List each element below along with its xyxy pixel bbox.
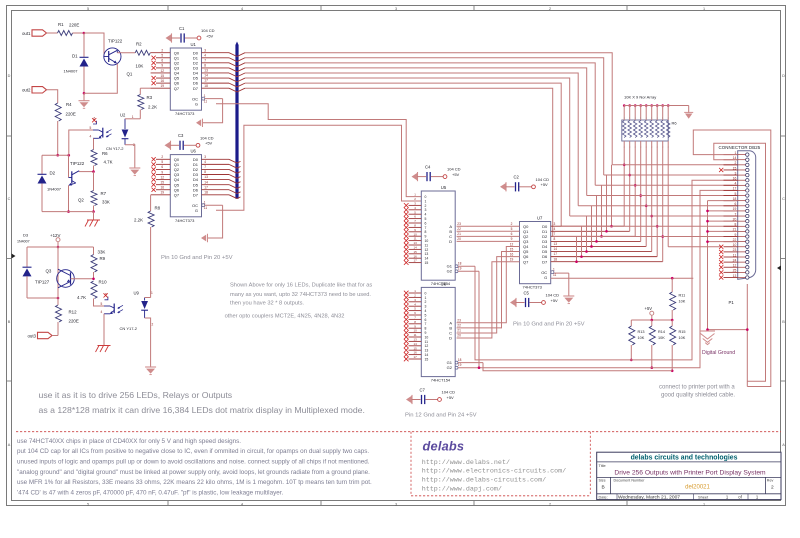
junction U8 G2 select: [478, 366, 481, 369]
svg-text:15: 15: [161, 180, 165, 184]
junction R6 R7 collector: [92, 170, 95, 173]
svg-text:5: 5: [511, 227, 513, 231]
x-marks U1 unused inputs: [152, 56, 156, 86]
svg-text:1N4007: 1N4007: [47, 187, 62, 192]
wire DB25 shell to ground: [708, 284, 749, 387]
svg-text:5: 5: [87, 502, 89, 506]
U5 output stubs: [409, 205, 422, 262]
junction opto collector rail: [68, 154, 71, 157]
capacitor C4: [412, 164, 461, 181]
svg-text:12: 12: [425, 344, 429, 348]
svg-text:Q2: Q2: [78, 198, 84, 203]
svg-text:4: 4: [425, 309, 427, 313]
wire DB25 ground bus: [706, 201, 738, 330]
resistor R7: [91, 172, 110, 212]
svg-text:10K: 10K: [679, 300, 686, 304]
svg-text:3: 3: [395, 502, 397, 506]
svg-text:+5V: +5V: [452, 172, 460, 177]
svg-text:D3: D3: [23, 232, 29, 237]
svg-text:3: 3: [425, 305, 427, 309]
svg-text:as a 128*128 matrix it can dri: as a 128*128 matrix it can drive 16,384 …: [39, 405, 365, 415]
svg-text:12: 12: [161, 69, 165, 73]
wires U7 Q0-Q3 to U5 ABCD: [457, 226, 520, 241]
svg-text:4: 4: [425, 213, 427, 217]
svg-text:10K: 10K: [136, 64, 144, 69]
wire node to Q1 collector: [84, 33, 104, 57]
U7 D riser wires: [551, 165, 663, 263]
svg-text:2: 2: [549, 7, 551, 11]
svg-text:del20021: del20021: [685, 484, 710, 490]
resistor R14: [649, 320, 665, 368]
svg-text:Q7: Q7: [174, 86, 180, 91]
svg-text:7: 7: [554, 232, 556, 236]
svg-text:7: 7: [425, 322, 427, 326]
svg-text:10K: 10K: [638, 336, 645, 340]
svg-text:4: 4: [90, 135, 92, 139]
resistor R2: [135, 42, 150, 69]
svg-text:6: 6: [161, 165, 163, 169]
svg-text:D: D: [449, 239, 452, 244]
svg-text:33K: 33K: [98, 250, 106, 255]
svg-text:21: 21: [457, 232, 461, 236]
svg-text:33K: 33K: [102, 200, 110, 205]
svg-text:16: 16: [413, 254, 417, 258]
opto U9 led: [141, 291, 153, 327]
junction out3 bottom: [57, 297, 60, 300]
resistor R9: [91, 247, 106, 279]
svg-text:D7: D7: [193, 86, 199, 91]
svg-text:R6: R6: [672, 121, 678, 126]
wire U2 collector to rail: [69, 130, 93, 155]
svg-text:A: A: [8, 443, 11, 447]
svg-text:19: 19: [161, 84, 165, 88]
svg-text:D1: D1: [72, 54, 78, 59]
wire U2 emitter to R6: [93, 138, 95, 143]
svg-text:C7: C7: [420, 387, 426, 392]
svg-text:G2: G2: [447, 365, 453, 370]
svg-text:R12: R12: [69, 310, 78, 315]
data bus: [235, 42, 238, 199]
bus entries U1 side: [229, 53, 245, 92]
svg-text:TIP122: TIP122: [70, 161, 85, 166]
array column 9 wire: [668, 145, 722, 247]
latch U7 74HCT373: [510, 216, 558, 290]
junction Q2 emitter rail: [67, 210, 70, 213]
svg-text:74HCT373: 74HCT373: [523, 285, 543, 290]
svg-text:B: B: [602, 485, 605, 491]
connector P1 DB25: [719, 145, 761, 305]
transistor Q3 TIP127: [35, 269, 74, 288]
svg-text:R14: R14: [658, 330, 665, 334]
svg-text:use it as it is to drive 256 L: use it as it is to drive 256 LEDs, Relay…: [39, 390, 233, 400]
wire DB25 pin14 loop: [714, 143, 766, 381]
x-marks DB25 unused pins: [719, 168, 723, 280]
svg-text:16: 16: [161, 186, 165, 190]
svg-text:Digital Ground: Digital Ground: [702, 350, 735, 356]
svg-text:74HCT373: 74HCT373: [175, 218, 195, 223]
capacitor C3: [165, 133, 214, 150]
junction R9 R10 base: [92, 278, 95, 281]
svg-text:Q7: Q7: [523, 259, 529, 264]
svg-text:9: 9: [511, 237, 513, 241]
port out3: [27, 332, 58, 338]
svg-text:10: 10: [425, 335, 429, 339]
svg-text:17: 17: [554, 252, 558, 256]
wire U9 emitter to ground: [103, 314, 105, 345]
svg-text:5: 5: [425, 313, 427, 317]
resistor network R6 10K x9 array: [622, 95, 678, 149]
svg-text:'474 CD' is 47 with 4 zeros pF: '474 CD' is 47 with 4 zeros pF, 470000 p…: [17, 489, 283, 496]
svg-text:Q1: Q1: [127, 72, 133, 77]
wire +5V rail: [631, 319, 672, 321]
x-mark U2 pin6: [92, 118, 96, 122]
svg-text:Q3: Q3: [46, 269, 52, 274]
svg-text:9: 9: [425, 331, 427, 335]
capacitor C1: [166, 26, 215, 43]
svg-text:D7: D7: [193, 192, 199, 197]
svg-text:2: 2: [161, 155, 163, 159]
svg-text:connect to printer port with a: connect to printer port with a: [659, 385, 735, 391]
ground out1: [79, 93, 90, 108]
svg-text:4: 4: [241, 7, 243, 11]
wire Q1 emitter return: [84, 64, 117, 94]
wire array common rail to +5V: [624, 106, 689, 114]
svg-text:G: G: [195, 208, 198, 213]
wire Q3 base: [71, 278, 94, 280]
svg-text:B: B: [782, 320, 785, 324]
ground U1 OC: [196, 119, 203, 127]
svg-text:7: 7: [425, 226, 427, 230]
svg-text:C5: C5: [524, 290, 530, 295]
svg-text:delabs: delabs: [423, 439, 465, 454]
svg-text:18: 18: [204, 190, 208, 194]
svg-text:14: 14: [204, 180, 208, 184]
svg-text:15: 15: [510, 247, 514, 251]
svg-text:http://www.electronics-circuit: http://www.electronics-circuits.com/: [422, 468, 566, 476]
svg-text:15: 15: [413, 250, 417, 254]
x-mark U9 pin6: [104, 293, 108, 297]
label digital ground: [702, 350, 735, 356]
U6 left pin stubs: [151, 159, 171, 194]
svg-text:3: 3: [554, 222, 556, 226]
port out2: [22, 87, 47, 93]
svg-text:U5: U5: [441, 185, 447, 190]
latch U6 74HCT373: [161, 149, 209, 223]
svg-text:1: 1: [132, 115, 134, 119]
svg-text:11: 11: [414, 333, 417, 337]
resistor R11: [670, 278, 686, 320]
svg-text:2: 2: [771, 485, 774, 491]
svg-text:8: 8: [425, 327, 427, 331]
wire U5 G2 select to DB25 pin17: [458, 190, 738, 367]
svg-text:3: 3: [395, 7, 397, 11]
svg-text:18: 18: [458, 261, 462, 265]
svg-text:13: 13: [413, 241, 417, 245]
wire rail out2 top: [42, 154, 69, 156]
svg-text:TIP127: TIP127: [35, 280, 50, 285]
svg-text:10K X 9 Nor Array: 10K X 9 Nor Array: [624, 95, 656, 100]
svg-text:17: 17: [413, 355, 417, 359]
svg-text:U1: U1: [191, 42, 197, 47]
svg-text:+5V: +5V: [551, 298, 559, 303]
svg-text:other opto couplers MCT2E, 4N2: other opto couplers MCT2E, 4N25, 4N28, 4…: [225, 314, 345, 320]
title block: [597, 452, 781, 500]
svg-text:Drive 256 Outputs with Printer: Drive 256 Outputs with Printer Port Disp…: [614, 469, 766, 476]
svg-text:D2: D2: [50, 171, 56, 176]
svg-text:19: 19: [458, 267, 462, 271]
wire R1 to node: [73, 32, 84, 34]
svg-text:1: 1: [425, 199, 427, 203]
svg-text:5: 5: [161, 160, 163, 164]
x-marks U5 outputs: [404, 203, 409, 265]
svg-text:11: 11: [204, 206, 208, 210]
wire U7 OC to ground: [554, 273, 569, 295]
ground U6 OC: [201, 234, 208, 242]
svg-text:Pin 12 Gnd and Pin 24 +5V: Pin 12 Gnd and Pin 24 +5V: [405, 413, 477, 419]
transistor Q1 TIP122: [104, 39, 133, 77]
svg-text:19: 19: [458, 363, 462, 367]
svg-text:unused inputs of logic and opa: unused inputs of logic and opamps pull u…: [17, 459, 370, 466]
svg-text:D7: D7: [542, 259, 548, 264]
svg-text:R2: R2: [136, 42, 142, 47]
svg-text:11: 11: [553, 273, 557, 277]
resistor R12: [56, 298, 79, 336]
svg-text:+12V: +12V: [50, 233, 60, 238]
svg-text:+5V: +5V: [645, 306, 653, 311]
note shown above: [230, 283, 372, 307]
power +5V array: [684, 112, 693, 118]
latch U1 74HCT373: [161, 42, 209, 116]
junction node out1: [83, 32, 86, 35]
note pin10 gnd left: [161, 255, 233, 261]
svg-text:D: D: [782, 74, 785, 78]
svg-text:CN Y17-2: CN Y17-2: [120, 326, 138, 331]
power +5V pullups: [645, 306, 654, 320]
junction R4 rail: [56, 154, 59, 157]
wire Q2 collector: [79, 171, 94, 173]
svg-text:17: 17: [204, 79, 208, 83]
svg-text:7: 7: [204, 165, 206, 169]
svg-text:Sheet: Sheet: [698, 494, 709, 499]
svg-text:U9: U9: [134, 291, 140, 296]
svg-text:2: 2: [511, 222, 513, 226]
svg-text:C3: C3: [178, 133, 184, 138]
svg-text:104 CD: 104 CD: [447, 167, 461, 172]
svg-text:1: 1: [425, 296, 427, 300]
svg-text:18: 18: [458, 358, 462, 362]
svg-text:R11: R11: [679, 294, 686, 298]
bus entries U6 side: [229, 159, 241, 198]
svg-text:8: 8: [554, 237, 556, 241]
svg-text:8: 8: [204, 170, 206, 174]
note opto couplers: [225, 314, 345, 320]
svg-text:14: 14: [413, 342, 417, 346]
svg-text:out2: out2: [22, 88, 31, 93]
svg-text:3: 3: [425, 208, 427, 212]
wire U9 led cathode: [145, 318, 151, 367]
svg-text:19: 19: [161, 191, 165, 195]
wire opto to Q2 base: [68, 155, 70, 177]
wire U1 OC to ground: [202, 99, 223, 123]
svg-text:22: 22: [457, 323, 461, 327]
svg-text:Title: Title: [599, 463, 606, 468]
note pin10 gnd right: [513, 321, 585, 327]
svg-text:22: 22: [457, 227, 461, 231]
svg-text:+5V: +5V: [541, 182, 549, 187]
svg-text:13: 13: [204, 69, 208, 73]
svg-text:12: 12: [425, 248, 429, 252]
svg-text:4: 4: [204, 160, 206, 164]
wire U1 G to U5 output0: [216, 104, 421, 197]
resistor R4: [55, 102, 76, 121]
wire U5 G1 select to DB25 pin16: [458, 180, 738, 360]
svg-text:D: D: [449, 336, 452, 341]
svg-text:1: 1: [151, 291, 153, 295]
svg-text:16: 16: [510, 252, 514, 256]
svg-text:12: 12: [161, 175, 165, 179]
x-marks U8 outputs: [404, 291, 409, 362]
wire U8 G2 join: [458, 367, 479, 369]
svg-text:15: 15: [425, 261, 429, 265]
svg-text:then you have 32 * 8 outputs.: then you have 32 * 8 outputs.: [230, 301, 304, 307]
wire U8 G1 select line: [458, 363, 672, 371]
svg-text:R10: R10: [99, 280, 108, 285]
svg-text:R13: R13: [638, 330, 645, 334]
junction D1-emitter: [83, 92, 86, 95]
svg-text:C4: C4: [425, 164, 431, 169]
svg-text:8: 8: [204, 64, 206, 68]
svg-text:Rev: Rev: [767, 479, 774, 483]
resistor R15: [670, 320, 686, 371]
svg-text:Size: Size: [599, 479, 606, 483]
wire rail out3 bottom: [27, 297, 58, 299]
wire Q3 vertical: [57, 247, 59, 298]
junction R13 select line: [630, 359, 633, 362]
capacitor C7: [406, 387, 455, 404]
svg-text:A: A: [782, 443, 785, 447]
svg-text:220E: 220E: [66, 112, 76, 117]
svg-text:104 CD: 104 CD: [201, 28, 215, 33]
svg-text:2: 2: [425, 204, 427, 208]
svg-text:+5V: +5V: [205, 141, 213, 146]
svg-text:use 74HCT40XX chips in place o: use 74HCT40XX chips in place of CD40XX f…: [17, 438, 241, 445]
svg-text:10K: 10K: [679, 336, 686, 340]
svg-text:2: 2: [152, 323, 154, 327]
svg-text:U8: U8: [441, 281, 447, 286]
svg-text:R9: R9: [100, 256, 106, 261]
svg-text:many as you want, upto 32 74HC: many as you want, upto 32 74HCT373 need …: [230, 292, 371, 298]
svg-text:C2: C2: [514, 175, 520, 180]
svg-text:10: 10: [425, 239, 429, 243]
svg-text:2: 2: [549, 502, 551, 506]
U8 output stubs: [409, 293, 422, 359]
wire U2 led cathode to ground: [125, 145, 135, 168]
svg-text:4.7K: 4.7K: [104, 160, 113, 165]
svg-text:6: 6: [161, 59, 163, 63]
wire DB25 pin1 strobe loop: [693, 130, 771, 387]
note pin12 gnd: [405, 413, 477, 419]
wire R4 to rail: [57, 121, 59, 155]
wire U6 OC to ground: [205, 205, 223, 238]
opto U2 led: [122, 115, 135, 147]
wire out1 to R1: [47, 32, 58, 34]
svg-text:delabs circuits and technologi: delabs circuits and technologies: [631, 455, 738, 462]
resistor R6: [91, 143, 113, 172]
svg-text:U6: U6: [191, 149, 197, 154]
svg-text:10: 10: [413, 329, 417, 333]
svg-text:out3: out3: [27, 333, 36, 338]
svg-text:4.7K: 4.7K: [77, 295, 86, 300]
svg-text:14: 14: [425, 257, 429, 261]
decoder U5 74HCT154: [413, 185, 461, 286]
port out1: [22, 30, 47, 36]
svg-text:D: D: [8, 74, 11, 78]
transistor Q2 TIP122: [69, 161, 85, 203]
svg-text:out1: out1: [22, 31, 31, 36]
svg-text:G2: G2: [447, 269, 453, 274]
ground out2 earth: [85, 212, 100, 227]
junction +12V rail: [57, 246, 60, 249]
svg-text:CN Y17-2: CN Y17-2: [106, 146, 124, 151]
svg-text:220E: 220E: [69, 23, 79, 28]
svg-text:23: 23: [457, 318, 461, 322]
svg-text:4: 4: [204, 53, 206, 57]
svg-text:+5V: +5V: [206, 33, 214, 38]
svg-text:6: 6: [511, 232, 513, 236]
junction ground node: [706, 328, 709, 331]
svg-text:R7: R7: [101, 191, 107, 196]
resistor R3: [138, 88, 157, 119]
svg-text:Shown Above for only 16 LEDs,: Shown Above for only 16 LEDs, Duplicate …: [230, 283, 372, 289]
wire Q1 collector to R2: [117, 52, 135, 54]
svg-text:CONNECTOR DB25: CONNECTOR DB25: [719, 145, 761, 150]
wire out2 to R4: [47, 90, 58, 103]
svg-text:Q7: Q7: [174, 192, 180, 197]
svg-text:15: 15: [161, 74, 165, 78]
svg-text:4: 4: [241, 502, 243, 506]
ground U7 OC: [563, 296, 574, 304]
diode D2: [38, 155, 62, 211]
wires U7 Q4-Q7 to U8 ABCD: [457, 246, 520, 338]
svg-text:13: 13: [425, 252, 429, 256]
svg-text:B: B: [8, 320, 11, 324]
svg-text:11: 11: [414, 237, 417, 241]
wire R8 to U9 led: [145, 297, 151, 299]
svg-text:6: 6: [425, 221, 427, 225]
note drive 256 outputs: [39, 390, 365, 415]
svg-text:1N4007: 1N4007: [17, 239, 30, 243]
capacitor C5: [510, 290, 559, 307]
svg-text:R3: R3: [147, 95, 153, 100]
svg-text:2: 2: [161, 49, 163, 53]
svg-text:1N4007: 1N4007: [64, 69, 79, 74]
svg-text:10K: 10K: [658, 336, 665, 340]
svg-text:http://www.delabs-circuits.com: http://www.delabs-circuits.com/: [422, 477, 546, 485]
design notes text: [17, 438, 372, 497]
svg-text:23: 23: [457, 222, 461, 226]
array column wires to data lines: [623, 145, 664, 262]
svg-text:17: 17: [204, 185, 208, 189]
svg-text:Pin 10 Gnd and Pin 20 +5V: Pin 10 Gnd and Pin 20 +5V: [161, 255, 233, 261]
svg-text:R4: R4: [66, 102, 72, 107]
svg-text:R6: R6: [102, 151, 108, 156]
svg-text:17: 17: [413, 259, 417, 263]
svg-text:5: 5: [425, 217, 427, 221]
svg-text:104 CD: 104 CD: [546, 293, 560, 298]
svg-text:Date:: Date:: [599, 494, 608, 499]
notes dashed box: [16, 432, 781, 496]
svg-text:20: 20: [457, 237, 461, 241]
